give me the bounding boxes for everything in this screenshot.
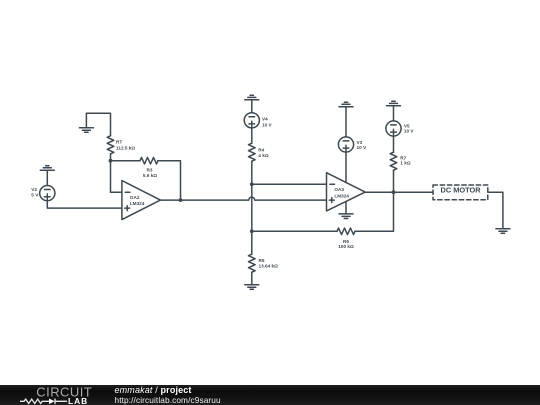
node junction (RT / R3 / OA2 -) — [109, 159, 113, 163]
svg-text:LAB: LAB — [68, 396, 88, 405]
wire (top-left ground to RT) — [86, 113, 110, 136]
ground (above V3) — [339, 102, 353, 137]
wire (R4 bottom to junction) — [251, 161, 253, 184]
ground (above V4) — [245, 95, 259, 113]
wire (junction to OA3 - input) — [252, 183, 327, 185]
ground (below OA3) — [339, 214, 353, 219]
node junction (OA3 output / R7 / R6) — [392, 190, 396, 194]
svg-text:OA2: OA2 — [130, 195, 140, 200]
svg-text:112.5 kΩ: 112.5 kΩ — [116, 146, 135, 151]
node junction (R4 / OA3 - wire) — [250, 182, 254, 186]
voltage source V5 — [386, 121, 401, 136]
wire (OA3 V- pin to ground) — [345, 202, 347, 214]
svg-text:V4: V4 — [262, 117, 268, 122]
node junction (R5 / R6 node) — [250, 229, 254, 233]
wire (R6 right up to OA3 output) — [355, 192, 394, 231]
CircuitLab logo — [0, 385, 110, 405]
footer meta text — [115, 385, 221, 405]
wire (vertical through hop down to R5/R6 junction) — [251, 184, 253, 231]
OA3 label — [334, 187, 349, 198]
svg-text:DC MOTOR: DC MOTOR — [441, 186, 482, 195]
wire (V4 to R4) — [251, 128, 253, 143]
footer bar — [0, 385, 540, 405]
wire (DC MOTOR to ground) — [488, 192, 503, 229]
RT label — [116, 139, 135, 150]
svg-text:13.64 kΩ: 13.64 kΩ — [259, 264, 279, 269]
wire (junction to R6 left) — [252, 230, 337, 232]
ground (below DC MOTOR) — [496, 229, 510, 234]
resistor R7 — [390, 152, 397, 170]
V3 label — [357, 140, 368, 150]
svg-text:10 V: 10 V — [357, 145, 368, 150]
svg-text:5 V: 5 V — [31, 192, 39, 197]
DC MOTOR block — [433, 185, 488, 200]
svg-text:V2: V2 — [31, 187, 37, 192]
R5 label — [259, 258, 279, 269]
svg-text:RT: RT — [116, 139, 122, 144]
V2 label — [31, 187, 39, 198]
node junction (OA2 output / R3 feedback) — [179, 198, 183, 202]
resistor R3 — [140, 157, 158, 164]
wire (OA2 output with hop over vertical) — [160, 197, 326, 200]
svg-text:R5: R5 — [259, 258, 265, 263]
svg-text:100 kΩ: 100 kΩ — [338, 244, 354, 249]
wire (junction down to OA2 - input) — [111, 161, 122, 193]
svg-text:10 V: 10 V — [404, 129, 415, 134]
svg-text:LM324: LM324 — [334, 193, 349, 198]
resistor R4 — [249, 143, 256, 161]
wire (R5 bottom to ground) — [251, 272, 253, 285]
ground (above V5) — [387, 101, 401, 121]
ground (below R5) — [245, 285, 259, 290]
OA2 label — [130, 195, 145, 206]
voltage source V3 — [338, 137, 353, 152]
wire (R7 bottom to output node) — [393, 170, 395, 192]
svg-text:4 kΩ: 4 kΩ — [258, 153, 269, 158]
wire (V2 bottom to OA2 + input) — [47, 201, 122, 208]
svg-text:R4: R4 — [258, 147, 264, 152]
op-amp OA2 — [122, 181, 160, 220]
svg-text:OA3: OA3 — [334, 187, 344, 192]
svg-text:5.6 kΩ: 5.6 kΩ — [143, 173, 157, 178]
ground (above V2) — [40, 166, 54, 186]
svg-text:1 kΩ: 1 kΩ — [400, 161, 411, 166]
R4 label — [258, 147, 269, 158]
voltage source V4 — [244, 113, 259, 128]
R3 label — [143, 168, 157, 179]
wire (OA3 output to DC MOTOR) — [365, 191, 433, 193]
wire (R3 right down to OA2 output) — [158, 161, 181, 200]
resistor R6 — [337, 228, 355, 235]
R7 label — [400, 156, 411, 166]
V5 label — [404, 124, 415, 134]
R6 label — [338, 239, 354, 249]
ground (top-left, node to RT top) — [79, 113, 93, 132]
svg-text:10 V: 10 V — [262, 123, 273, 128]
resistor RT — [107, 136, 114, 154]
wire (junction to R3 left) — [111, 160, 141, 162]
V4 label — [262, 117, 273, 128]
voltage source V2 — [40, 186, 55, 201]
wire (junction down to R5) — [251, 231, 253, 254]
wire (RT bottom to junction) — [110, 154, 112, 161]
svg-text:LM324: LM324 — [130, 201, 145, 206]
wire (V3 to OA3 V+ pin) — [345, 152, 347, 182]
resistor R5 — [249, 254, 256, 272]
op-amp OA3 — [327, 173, 366, 211]
wire (V5 to R7) — [393, 136, 395, 152]
svg-text:R3: R3 — [147, 168, 153, 173]
